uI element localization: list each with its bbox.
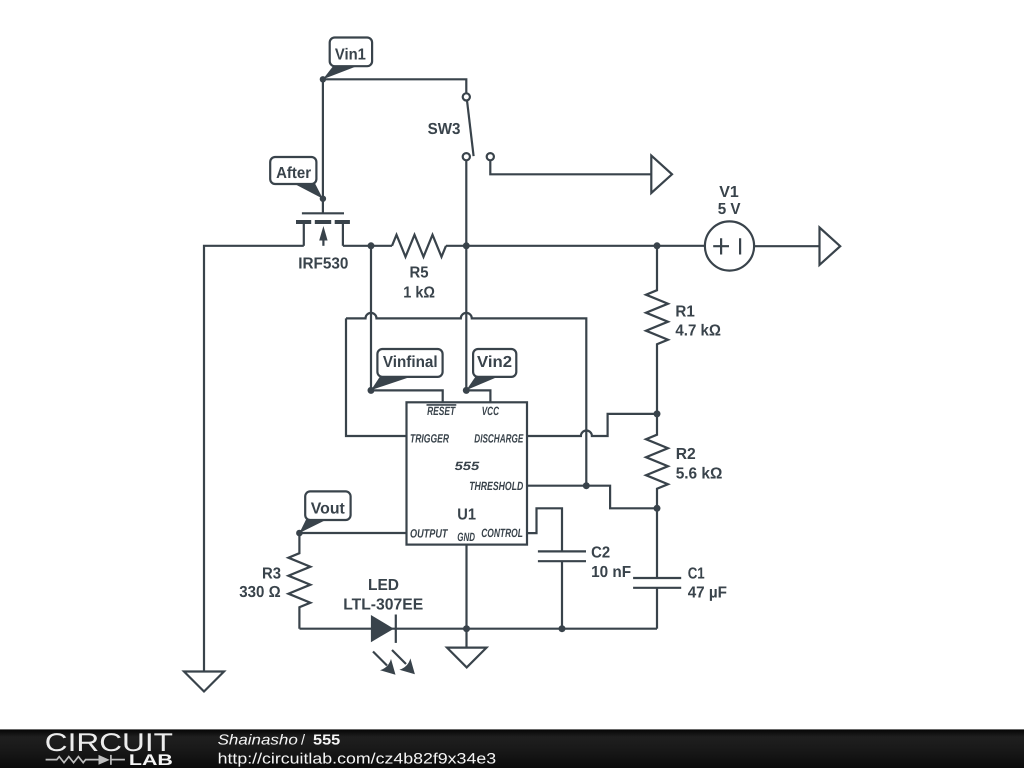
flag Vout — [299, 491, 350, 533]
wire V1 to output arrow — [754, 245, 819, 247]
svg-text:1 kΩ: 1 kΩ — [403, 285, 435, 302]
node GND-rail junction dot — [463, 625, 470, 632]
voltage source V1 — [705, 184, 754, 271]
resistor R2 — [646, 414, 723, 508]
svg-text:LED: LED — [368, 577, 399, 594]
svg-text:GND: GND — [457, 530, 475, 544]
svg-text:555: 555 — [313, 732, 340, 748]
svg-text:LAB: LAB — [129, 752, 173, 768]
wire drop rail to Vin2 node — [465, 246, 467, 391]
svg-text:Vinfinal: Vinfinal — [383, 354, 438, 371]
node C2-rail junction dot — [559, 625, 566, 632]
output arrow flag at SW3 — [651, 156, 672, 193]
node rail-SW3 junction dot — [463, 242, 470, 249]
svg-text:RESET: RESET — [427, 404, 456, 418]
wire bottom rail — [300, 628, 658, 630]
wire trigger-threshold loop top with hops — [346, 313, 586, 486]
svg-text:5.6 kΩ: 5.6 kΩ — [676, 465, 723, 482]
svg-text:V1: V1 — [719, 184, 739, 201]
resistor R1 — [646, 246, 721, 414]
IC U1 555 timer body — [407, 402, 528, 544]
wire loop left down to TRIGGER — [346, 318, 407, 436]
resistor R3 — [239, 533, 310, 629]
svg-text:VCC: VCC — [482, 404, 500, 418]
svg-text:4.7 kΩ: 4.7 kΩ — [675, 323, 721, 340]
flag Vinfinal — [371, 349, 443, 390]
node After junction dot — [320, 196, 326, 202]
svg-text:R5: R5 — [410, 265, 429, 282]
capacitor C1 — [633, 565, 727, 601]
wire main rail left segment to left drop — [204, 246, 304, 672]
wire THRESHOLD to R2 bottom — [527, 486, 657, 509]
svg-text:C2: C2 — [591, 545, 610, 562]
flag Vin2 — [466, 349, 516, 390]
svg-text:After: After — [276, 165, 311, 182]
svg-text:http://circuitlab.com/cz4b82f9: http://circuitlab.com/cz4b82f9x34e3 — [218, 751, 497, 768]
wire CONTROL to C2 — [527, 508, 562, 551]
svg-text:330 Ω: 330 Ω — [239, 584, 281, 601]
wire OUTPUT pin to Vout node — [299, 532, 406, 534]
svg-text:R3: R3 — [262, 566, 281, 583]
node threshold-loop junction dot — [583, 482, 590, 489]
wire C2 bottom to rail — [561, 561, 563, 629]
wire Vin1 node to SW3 top — [323, 79, 466, 93]
footer bar — [0, 729, 1024, 768]
node R2-threshold junction dot — [654, 505, 661, 512]
wire SW3 left throw down to rail — [465, 160, 467, 246]
output arrow flag at V1 — [820, 228, 841, 265]
svg-text:Shainasho: Shainasho — [218, 732, 298, 748]
svg-text:SW3: SW3 — [428, 121, 461, 138]
LED D1 LTL-307EE — [343, 577, 423, 675]
node R1-R2-discharge junction dot — [654, 410, 661, 417]
logo resistor-diode art — [46, 755, 125, 765]
svg-text:DISCHARGE: DISCHARGE — [474, 432, 524, 446]
wire SW3 right throw to output arrow — [490, 160, 651, 174]
wire Vinfinal to RESET pin — [371, 390, 443, 402]
svg-text:TRIGGER: TRIGGER — [410, 432, 449, 446]
svg-text:OUTPUT: OUTPUT — [410, 527, 449, 541]
capacitor C2 — [538, 545, 631, 581]
node Vin2 junction dot — [463, 387, 470, 394]
svg-text:CONTROL: CONTROL — [481, 526, 523, 540]
svg-text:10 nF: 10 nF — [591, 564, 631, 581]
svg-text:IRF530: IRF530 — [298, 256, 348, 273]
flag Vin1 — [323, 38, 372, 80]
ground U1 — [447, 648, 487, 668]
resistor R5 — [392, 235, 446, 302]
svg-text:C1: C1 — [688, 565, 705, 582]
svg-text:THRESHOLD: THRESHOLD — [469, 479, 523, 493]
wire R2 to C1 — [656, 508, 658, 578]
node Vout junction dot — [296, 530, 303, 537]
svg-text:555: 555 — [455, 459, 480, 473]
svg-text:Vin2: Vin2 — [477, 354, 512, 371]
node Vin1 junction dot — [320, 76, 326, 82]
wire DISCHARGE to R1-R2 node with hop — [527, 414, 657, 436]
wire rail MOSFET drain to R5 — [343, 245, 392, 247]
wire C1 bottom to rail — [656, 588, 658, 629]
transistor Q1 IRF530 — [296, 213, 350, 272]
node Vinfinal junction dot — [368, 387, 375, 394]
wire Vin1 node down to MOSFET gate — [322, 79, 324, 213]
pin RESET overline — [427, 404, 457, 406]
ground left — [184, 672, 224, 692]
wire GND pin down to ground — [465, 545, 467, 648]
node rail-R1 junction dot — [654, 242, 661, 249]
wire drop rail to Vinfinal node — [370, 246, 372, 391]
svg-text:R1: R1 — [675, 304, 694, 321]
node rail-drain junction dot — [368, 242, 375, 249]
svg-text:5 V: 5 V — [718, 201, 741, 218]
svg-text:Vin1: Vin1 — [335, 46, 366, 63]
svg-text:U1: U1 — [457, 507, 476, 524]
svg-text:R2: R2 — [676, 446, 696, 463]
svg-text:47 µF: 47 µF — [688, 584, 728, 601]
switch SW3 — [428, 93, 494, 160]
wire rail R5 to V1 — [446, 245, 705, 247]
svg-text:Vout: Vout — [311, 500, 346, 517]
wire Vin2 to VCC pin — [466, 390, 490, 402]
flag After — [270, 157, 323, 199]
svg-text:LTL-307EE: LTL-307EE — [343, 597, 423, 614]
